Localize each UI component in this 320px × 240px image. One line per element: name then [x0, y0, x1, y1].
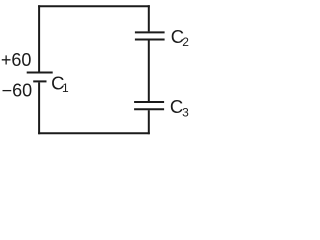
wire right upper segment: [148, 5, 150, 31]
capacitor C1: [27, 73, 53, 82]
svg-text:3: 3: [182, 105, 189, 119]
label C1: [51, 72, 69, 95]
label C2: [171, 26, 190, 49]
wire right lower segment: [148, 110, 150, 134]
wire bottom: [38, 132, 150, 134]
wire right middle segment: [148, 41, 150, 102]
capacitor C3: [134, 102, 164, 109]
wire left upper segment: [38, 5, 40, 71]
svg-text:2: 2: [182, 35, 189, 49]
svg-text:+60: +60: [1, 50, 32, 70]
wire top: [38, 5, 150, 7]
capacitor C2: [135, 32, 165, 39]
svg-text:1: 1: [62, 81, 69, 95]
svg-text:−60: −60: [2, 80, 33, 100]
wire left lower segment: [38, 83, 40, 135]
label C3: [170, 96, 189, 120]
